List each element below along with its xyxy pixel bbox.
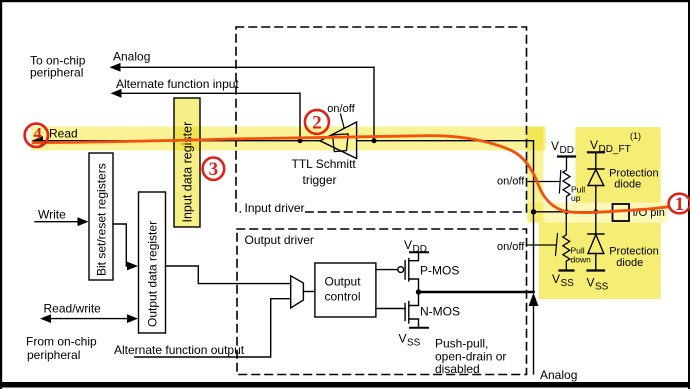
svg-text:SS: SS (407, 338, 421, 349)
wire: Alternate function input arrow (111, 77, 301, 98)
svg-text:peripheral: peripheral (27, 348, 80, 362)
wire: mux to output control (303, 291, 315, 293)
power: VDD_FT terminal (588, 131, 641, 155)
highlight: right block lower (539, 223, 661, 300)
annotation: circle 3 (203, 158, 225, 181)
svg-text:From on-chip: From on-chip (26, 335, 97, 349)
svg-text:control: control (325, 290, 361, 304)
svg-text:on/off: on/off (327, 103, 355, 115)
RED ANNOTATION LAYER (25, 110, 690, 215)
wire: pull-down on/off switch (527, 234, 558, 256)
label: on/off pull-up (497, 176, 525, 188)
transistor: N-MOS (376, 292, 460, 349)
svg-text:N-MOS: N-MOS (420, 305, 460, 319)
transistor: P-MOS (376, 238, 459, 292)
svg-text:Output: Output (325, 275, 362, 289)
wire: output node to I/O column (thick) (419, 291, 534, 294)
wire: Write arrow (35, 208, 89, 227)
annotation: circle 4 (25, 124, 48, 147)
svg-text:trigger: trigger (303, 173, 337, 187)
node: analog junction on I/O line (372, 138, 377, 143)
annotation: circle 1 (669, 194, 690, 215)
label: push-pull modes (435, 337, 506, 377)
svg-text:Output data register: Output data register (146, 221, 160, 327)
block: Output control (315, 263, 376, 317)
svg-text:2: 2 (312, 112, 322, 133)
svg-text:Output driver: Output driver (245, 233, 314, 247)
svg-text:DD: DD (560, 145, 574, 156)
svg-text:on/off: on/off (497, 241, 525, 253)
node: pull junction on I/O line (564, 209, 569, 214)
power: VDD terminal (pull-up) (551, 139, 575, 157)
wire: pull-up on/off switch (527, 171, 561, 194)
svg-text:Analog: Analog (113, 50, 150, 64)
resistor: pull-up (563, 157, 585, 212)
svg-text:TTL Schmitt: TTL Schmitt (292, 157, 357, 171)
svg-text:Alternate function output: Alternate function output (114, 343, 245, 357)
wire: AFI vertical tap (299, 93, 301, 140)
dashed box: Input driver (236, 27, 527, 215)
resistor: pull-down (563, 212, 591, 271)
diode: top protection diode (588, 152, 659, 212)
mux: output selector (291, 276, 304, 308)
highlight: corner strip (527, 127, 544, 223)
wire: output data register to mux (166, 266, 291, 284)
node: From on-chip peripheral label (26, 335, 97, 363)
register: Input data register (yellow filled) (174, 98, 200, 227)
svg-text:Input driver: Input driver (245, 201, 305, 215)
highlight: read path band (31, 127, 546, 151)
wire: Read/write double arrow (40, 302, 138, 324)
wire: analog vertical tap (373, 67, 375, 140)
svg-text:DD: DD (413, 244, 427, 255)
node: corner junction on I/O line (531, 209, 536, 214)
svg-text:Push-pull,: Push-pull, (435, 337, 488, 351)
dashed box: Output driver (237, 229, 527, 375)
node: push-pull output node (416, 289, 421, 294)
svg-text:Write: Write (38, 208, 66, 222)
wire: Alternate function output (114, 299, 291, 357)
node: diode junction on I/O line (593, 209, 598, 214)
highlight: right block upper (576, 127, 661, 203)
svg-text:3: 3 (209, 159, 219, 180)
svg-text:Read/write: Read/write (44, 302, 102, 316)
HIGHLIGHT LAYER (31, 127, 668, 300)
register: Bit set/reset registers (89, 153, 113, 280)
svg-text:V: V (551, 139, 559, 153)
power: VSS terminal (bottom diode) (587, 271, 609, 293)
node: AFI junction on read line (298, 138, 303, 143)
svg-text:on/off: on/off (497, 176, 525, 188)
wire: Read line with left arrow (32, 127, 534, 146)
wire: red signal trace (33, 136, 669, 213)
wire: corner down to I/O line (533, 141, 535, 292)
svg-text:disabled: disabled (435, 362, 480, 376)
svg-text:V: V (404, 238, 412, 252)
register: Output data register (139, 192, 166, 333)
svg-text:Bit set/reset registers: Bit set/reset registers (95, 163, 109, 276)
wire: I/O horizontal line (534, 211, 613, 213)
svg-text:peripheral: peripheral (30, 66, 83, 80)
label: on/off pull-down (497, 241, 525, 253)
wire: analog vertical to bottom with up arrow (529, 293, 578, 382)
wire: bit set/reset to output data register (113, 224, 138, 270)
annotation: circle 2 (305, 110, 329, 134)
svg-text:1: 1 (675, 194, 685, 215)
highlight: I/O pin band (529, 203, 668, 223)
svg-text:Analog: Analog (540, 368, 577, 382)
node: To on-chip peripheral label (30, 54, 86, 80)
svg-text:Alternate function input: Alternate function input (116, 77, 239, 91)
power: VSS terminal (pull-down) (552, 271, 574, 290)
op-amp: TTL Schmitt trigger (292, 122, 357, 187)
label: on/off (schmitt) with leader (327, 103, 355, 128)
diode: bottom protection diode (588, 212, 659, 271)
wire: Analog input arrow (to on-chip) (110, 50, 375, 72)
svg-text:P-MOS: P-MOS (420, 264, 459, 278)
svg-text:4: 4 (33, 124, 42, 143)
svg-text:V: V (399, 332, 407, 346)
pad: I/O pin square (613, 204, 665, 221)
